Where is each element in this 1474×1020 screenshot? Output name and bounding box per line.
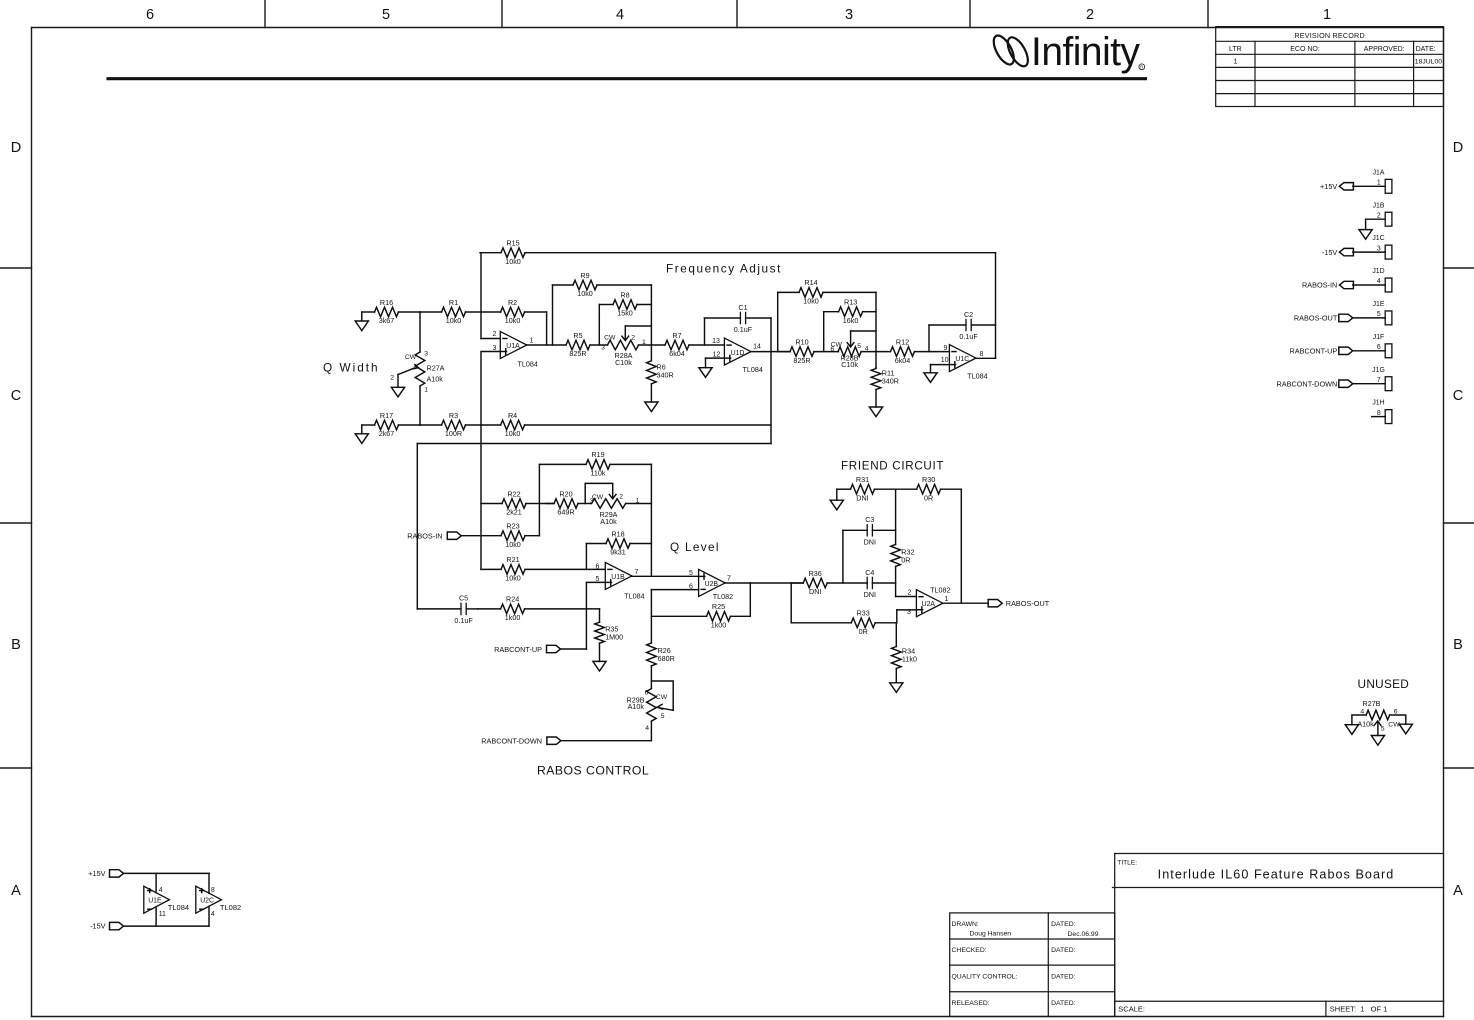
- resistor R8: [599, 290, 651, 317]
- svg-text:6: 6: [146, 7, 154, 23]
- svg-text:R36: R36: [809, 569, 822, 578]
- wire U1C output: [976, 357, 996, 359]
- svg-text:RABCONT-UP: RABCONT-UP: [494, 645, 542, 654]
- svg-text:3: 3: [601, 345, 605, 352]
- svg-text:0.1uF: 0.1uF: [734, 325, 753, 334]
- wire J1H stub: [1372, 416, 1386, 418]
- ground: [890, 683, 903, 693]
- svg-text:SCALE:: SCALE:: [1118, 1004, 1145, 1013]
- svg-text:Q Width: Q Width: [323, 361, 380, 375]
- wire R2 to U1A output: [546, 312, 548, 345]
- svg-text:J1C: J1C: [1372, 235, 1384, 242]
- svg-text:4: 4: [159, 887, 163, 894]
- svg-text:10k0: 10k0: [446, 316, 462, 325]
- section title Q Level: [670, 540, 720, 554]
- wire U2B pin6 net down: [651, 590, 698, 643]
- svg-text:C10k: C10k: [841, 360, 858, 369]
- resistor R31: [837, 475, 896, 502]
- svg-text:R33: R33: [857, 609, 870, 618]
- svg-text:ECO NO:: ECO NO:: [1290, 46, 1320, 53]
- resistor R36: [791, 569, 867, 596]
- svg-text:7: 7: [635, 569, 639, 576]
- wire U1B out to U2B pin5: [632, 575, 699, 577]
- svg-text:5: 5: [382, 7, 390, 23]
- resistor R23: [461, 522, 539, 549]
- ground: [391, 387, 404, 397]
- svg-text:7: 7: [727, 575, 731, 582]
- wire R33 left leg: [790, 583, 792, 623]
- svg-text:R25: R25: [712, 602, 725, 611]
- svg-text:R31: R31: [856, 475, 869, 484]
- resistor R16: [362, 298, 420, 325]
- node +15V power: [88, 869, 123, 878]
- node RABOS-IN at J1D: [1302, 281, 1353, 290]
- wire U2B output: [725, 582, 803, 584]
- svg-text:A: A: [1453, 883, 1463, 899]
- svg-text:10k0: 10k0: [505, 574, 521, 583]
- node RABCONT-DOWN at J1G: [1276, 379, 1352, 388]
- svg-text:4: 4: [645, 725, 649, 732]
- node RABCONT-DOWN: [481, 737, 561, 746]
- svg-text:Infinity: Infinity: [1031, 30, 1140, 74]
- wire J1F: [1353, 350, 1385, 352]
- svg-text:13: 13: [712, 338, 720, 345]
- svg-text:Dec.06.99: Dec.06.99: [1068, 931, 1099, 938]
- svg-text:C5: C5: [459, 594, 468, 603]
- wire U1A out: [527, 344, 566, 346]
- connector J1B pin 2: [1373, 202, 1392, 226]
- svg-text:U2B: U2B: [705, 581, 719, 588]
- resistor R33: [791, 609, 896, 636]
- svg-text:CW: CW: [1388, 722, 1400, 729]
- ground: [869, 407, 882, 417]
- svg-text:2: 2: [619, 494, 623, 501]
- wire J1B to ground: [1366, 219, 1386, 229]
- svg-text:0R: 0R: [901, 556, 910, 565]
- ground: [1359, 230, 1372, 240]
- wire U1C output feedback column: [995, 253, 997, 359]
- wire R13 left leg: [823, 312, 825, 352]
- svg-text:100R: 100R: [445, 429, 462, 438]
- svg-text:R18: R18: [611, 529, 624, 538]
- svg-text:11: 11: [159, 911, 166, 918]
- section title RABOS CONTROL: [537, 764, 649, 778]
- wire U2B... U1B pin5 net riser: [586, 582, 605, 649]
- node RABOS-IN: [407, 531, 461, 540]
- resistor R1: [420, 298, 481, 325]
- svg-text:TL084: TL084: [518, 360, 538, 369]
- svg-text:R5: R5: [573, 331, 582, 340]
- svg-text:RELEASED:: RELEASED:: [952, 1000, 990, 1007]
- op-amp U1C: [941, 345, 988, 381]
- svg-text:U2A: U2A: [922, 601, 936, 608]
- svg-text:C1: C1: [738, 303, 747, 312]
- svg-text:340R: 340R: [882, 376, 899, 385]
- svg-text:C4: C4: [865, 568, 874, 577]
- svg-text:14: 14: [753, 344, 761, 351]
- wire C1 left leg: [704, 318, 706, 345]
- svg-text:7: 7: [1377, 377, 1381, 384]
- svg-text:DATED:: DATED:: [1051, 974, 1076, 981]
- svg-text:R7: R7: [672, 331, 681, 340]
- svg-text:5: 5: [661, 713, 665, 720]
- svg-text:2: 2: [631, 335, 635, 342]
- resistor R6: [647, 345, 674, 402]
- svg-text:REVISION RECORD: REVISION RECORD: [1294, 31, 1365, 40]
- svg-text:D: D: [11, 140, 21, 156]
- svg-text:825R: 825R: [793, 356, 810, 365]
- svg-text:DNI: DNI: [809, 587, 821, 596]
- svg-text:3: 3: [1377, 245, 1381, 252]
- svg-text:J1H: J1H: [1372, 400, 1384, 407]
- svg-text:J1E: J1E: [1373, 301, 1385, 308]
- resistor R19: [539, 450, 651, 477]
- ground: [593, 661, 606, 671]
- svg-text:U1A: U1A: [506, 343, 520, 350]
- Infinity logo: [108, 30, 1146, 79]
- node +15V at J1A: [1320, 182, 1353, 191]
- resistor R4: [481, 411, 771, 438]
- resistor R13: [824, 298, 876, 325]
- svg-text:C10k: C10k: [615, 358, 632, 367]
- connector J1D pin 4: [1372, 268, 1392, 292]
- connector J1G pin 7: [1372, 367, 1392, 391]
- svg-text:CW: CW: [604, 335, 616, 342]
- wire rail left leg down to C5: [416, 444, 418, 609]
- svg-text:10k0: 10k0: [577, 289, 593, 298]
- resistor R18: [586, 529, 651, 556]
- svg-text:1: 1: [1377, 180, 1381, 187]
- op-amp U2B: [689, 569, 733, 601]
- resistor R7: [639, 331, 725, 358]
- svg-text:3: 3: [590, 498, 594, 505]
- svg-text:DNI: DNI: [856, 493, 868, 502]
- svg-text:R30: R30: [922, 475, 935, 484]
- resistor R35: [595, 609, 623, 662]
- svg-text:8: 8: [980, 351, 984, 358]
- resistor R3: [420, 411, 481, 438]
- potentiometer R27A: [390, 351, 444, 394]
- svg-text:CW: CW: [405, 354, 417, 361]
- wire R9 R8 right legs to main line: [650, 285, 652, 345]
- svg-text:R16: R16: [380, 298, 393, 307]
- section title Frequency Adjust: [666, 261, 782, 275]
- resistor R5: [566, 331, 608, 358]
- svg-text:0R: 0R: [859, 627, 868, 636]
- resistor R10: [779, 337, 838, 364]
- svg-text:J1F: J1F: [1373, 334, 1385, 341]
- resistor R12: [861, 337, 949, 364]
- svg-text:-15V: -15V: [1322, 248, 1338, 257]
- ground: [1399, 724, 1412, 734]
- svg-text:10k0: 10k0: [505, 257, 521, 266]
- svg-text:1k00: 1k00: [505, 613, 521, 622]
- ground: [1345, 725, 1358, 735]
- op-amp U1B: [596, 562, 645, 600]
- svg-text:J1G: J1G: [1372, 367, 1385, 374]
- svg-text:825R: 825R: [569, 349, 586, 358]
- svg-text:6: 6: [830, 346, 834, 353]
- op-amp U1D: [712, 338, 763, 374]
- section title UNUSED: [1358, 677, 1410, 691]
- svg-text:3: 3: [845, 7, 853, 23]
- potentiometer R28B: [830, 331, 876, 369]
- svg-text:DATE:: DATE:: [1416, 46, 1436, 53]
- svg-text:U1E: U1E: [148, 897, 162, 904]
- svg-text:C: C: [1453, 388, 1463, 404]
- svg-text:A10k: A10k: [628, 702, 645, 711]
- svg-text:RABOS-OUT: RABOS-OUT: [1006, 599, 1050, 608]
- wire U1D out: [751, 351, 790, 353]
- potentiometer R29B: [627, 681, 674, 732]
- wire R16 ground stub: [361, 312, 363, 321]
- op-amp U1E power pins: [144, 886, 189, 918]
- ground: [645, 402, 658, 412]
- svg-text:U1D: U1D: [731, 350, 745, 357]
- svg-text:3: 3: [493, 345, 497, 352]
- wire U1D output feedback column: [770, 318, 772, 444]
- svg-text:9k31: 9k31: [610, 548, 626, 557]
- svg-text:R13: R13: [844, 298, 857, 307]
- svg-text:FRIEND CIRCUIT: FRIEND CIRCUIT: [841, 460, 944, 473]
- svg-text:TL084: TL084: [168, 903, 189, 912]
- wire feedback rail: [417, 443, 771, 445]
- svg-text:6: 6: [645, 690, 649, 697]
- wire C3 to C4 left legs: [842, 530, 844, 583]
- connector J1H pin 8: [1372, 400, 1392, 424]
- svg-text:8: 8: [1377, 410, 1381, 417]
- wire U1A pin2 net: [481, 253, 500, 339]
- capacitor C3: [843, 515, 896, 546]
- section title FRIEND CIRCUIT: [841, 460, 944, 473]
- wire node Qwidth top to pot: [419, 312, 421, 352]
- svg-text:6k04: 6k04: [895, 356, 911, 365]
- connector J1A pin 1: [1373, 169, 1392, 193]
- svg-text:+15V: +15V: [1320, 182, 1337, 191]
- svg-text:9: 9: [943, 345, 947, 352]
- node RABCONT-UP at J1F: [1289, 347, 1352, 356]
- node -15V at J1C: [1322, 248, 1354, 257]
- svg-text:10: 10: [941, 357, 949, 364]
- resistor R22: [481, 489, 539, 516]
- svg-text:R9: R9: [580, 271, 589, 280]
- svg-text:J1D: J1D: [1372, 268, 1384, 275]
- svg-text:R3: R3: [449, 411, 458, 420]
- resistor R26: [647, 643, 675, 689]
- svg-text:3k67: 3k67: [379, 316, 395, 325]
- wire R25 right leg: [749, 583, 751, 616]
- svg-text:6: 6: [596, 564, 600, 571]
- svg-text:B: B: [1453, 637, 1463, 653]
- wire R19 right leg to U1B out: [650, 464, 652, 576]
- wire R29A pin1 to output column: [626, 503, 652, 505]
- wire J1C: [1353, 251, 1385, 253]
- svg-text:6k04: 6k04: [669, 349, 685, 358]
- svg-text:18JUL00: 18JUL00: [1415, 58, 1442, 65]
- resistor R34: [892, 623, 917, 683]
- svg-text:6: 6: [1377, 344, 1381, 351]
- svg-text:CW: CW: [656, 694, 668, 701]
- wire J1G: [1353, 383, 1385, 385]
- ground: [924, 373, 937, 383]
- svg-text:340R: 340R: [657, 371, 674, 380]
- svg-text:R22: R22: [507, 489, 520, 498]
- svg-text:5: 5: [689, 570, 693, 577]
- wire R22 to R20: [539, 503, 554, 505]
- wire -15V rail: [124, 906, 210, 926]
- svg-text:D: D: [1453, 140, 1463, 156]
- resistor R32: [891, 544, 915, 566]
- svg-text:J1A: J1A: [1373, 169, 1385, 176]
- op-amp U2C power pins: [196, 886, 241, 918]
- svg-text:R23: R23: [506, 522, 519, 531]
- wire R30 left leg down: [895, 489, 897, 544]
- svg-text:2k67: 2k67: [379, 429, 395, 438]
- revision record table: [1216, 27, 1444, 107]
- svg-text:QUALITY CONTROL:: QUALITY CONTROL:: [952, 974, 1018, 981]
- svg-text:2: 2: [1086, 7, 1094, 23]
- svg-text:RABOS CONTROL: RABOS CONTROL: [537, 764, 649, 778]
- resistor R24: [478, 595, 600, 622]
- svg-text:649R: 649R: [557, 508, 574, 517]
- svg-text:B: B: [11, 637, 21, 653]
- svg-text:RABOS-OUT: RABOS-OUT: [1294, 314, 1338, 323]
- svg-text:C3: C3: [865, 515, 874, 524]
- svg-text:TL084: TL084: [624, 592, 644, 601]
- svg-text:RABOS-IN: RABOS-IN: [1302, 281, 1337, 290]
- svg-text:5: 5: [1381, 726, 1385, 733]
- ground: [355, 321, 368, 331]
- svg-text:5: 5: [1377, 311, 1381, 318]
- svg-text:Doug Hansen: Doug Hansen: [970, 930, 1012, 937]
- svg-text:RABOS-IN: RABOS-IN: [407, 531, 442, 540]
- wire U1C pin10 to ground: [931, 365, 950, 373]
- svg-text:0.1uF: 0.1uF: [454, 616, 473, 625]
- svg-text:15k0: 15k0: [617, 309, 633, 318]
- svg-text:R24: R24: [506, 595, 519, 604]
- svg-text:DATED:: DATED:: [1051, 921, 1076, 928]
- svg-text:+15V: +15V: [88, 869, 105, 878]
- wire R17 ground stub: [361, 425, 363, 434]
- svg-text:TL084: TL084: [743, 365, 763, 374]
- svg-text:R17: R17: [380, 411, 393, 420]
- op-amp U1A: [493, 331, 538, 368]
- svg-text:DNI: DNI: [864, 590, 876, 599]
- wire R31 ground stub: [836, 489, 838, 500]
- svg-text:LTR: LTR: [1229, 46, 1242, 53]
- section title Q Width: [323, 361, 380, 375]
- svg-text:R19: R19: [591, 450, 604, 459]
- svg-text:680R: 680R: [658, 654, 675, 663]
- svg-text:2k21: 2k21: [506, 508, 522, 517]
- capacitor C2: [929, 310, 996, 341]
- svg-text:10k0: 10k0: [505, 316, 521, 325]
- svg-text:Frequency Adjust: Frequency Adjust: [666, 261, 782, 275]
- svg-text:TL082: TL082: [220, 903, 241, 912]
- node RABOS-OUT at J1E: [1294, 314, 1353, 323]
- wire R29B pin4 down: [650, 721, 652, 741]
- svg-text:R1: R1: [449, 298, 458, 307]
- connector J1F pin 6: [1373, 334, 1392, 358]
- wire R27B pin4 to ground: [1352, 715, 1366, 725]
- wire J1D: [1353, 284, 1385, 286]
- resistor R30: [896, 475, 962, 502]
- svg-text:1: 1: [424, 387, 428, 394]
- node RABCONT-UP: [494, 645, 560, 654]
- potentiometer R27B: [1357, 699, 1400, 735]
- resistor R15: [480, 239, 996, 266]
- svg-text:2: 2: [908, 589, 912, 596]
- resistor R11: [871, 368, 899, 408]
- ground: [830, 500, 843, 510]
- svg-text:TL084: TL084: [967, 372, 987, 381]
- svg-text:APPROVED:: APPROVED:: [1364, 46, 1405, 53]
- ground: [355, 434, 368, 444]
- node -15V power: [90, 922, 123, 931]
- svg-text:R27B: R27B: [1363, 699, 1381, 708]
- svg-text:C2: C2: [964, 310, 973, 319]
- connector J1C pin 3: [1372, 235, 1392, 259]
- svg-text:A10k: A10k: [1357, 720, 1374, 729]
- svg-text:2: 2: [1377, 212, 1381, 219]
- svg-text:11k0: 11k0: [902, 655, 917, 664]
- svg-text:-15V: -15V: [90, 922, 106, 931]
- svg-text:1M00: 1M00: [605, 633, 623, 642]
- svg-text:U1C: U1C: [955, 356, 969, 363]
- svg-text:TITLE:: TITLE:: [1117, 859, 1137, 866]
- svg-text:110k: 110k: [590, 469, 605, 478]
- svg-text:Interlude IL60 Feature Rabos B: Interlude IL60 Feature Rabos Board: [1158, 868, 1395, 882]
- svg-text:C: C: [11, 388, 21, 404]
- wire RABCONT-UP to riser: [561, 648, 587, 650]
- svg-text:4: 4: [616, 7, 624, 23]
- svg-text:10k0: 10k0: [505, 540, 521, 549]
- svg-text:A: A: [11, 883, 21, 899]
- svg-text:1: 1: [1233, 58, 1237, 65]
- svg-text:2: 2: [390, 375, 394, 382]
- title block: [950, 854, 1444, 1017]
- svg-text:U2C: U2C: [200, 897, 214, 904]
- svg-text:R14: R14: [804, 278, 817, 287]
- svg-text:8: 8: [211, 887, 215, 894]
- resistor R21: [481, 555, 605, 582]
- svg-text:RABCONT-DOWN: RABCONT-DOWN: [1276, 379, 1337, 388]
- svg-text:12: 12: [713, 351, 721, 358]
- svg-text:R10: R10: [795, 337, 808, 346]
- ground: [699, 368, 712, 378]
- capacitor C4: [864, 568, 896, 599]
- wire R19 left leg: [538, 464, 540, 535]
- wire U1A pin3 net down: [481, 352, 500, 570]
- wire R14 right leg down to R11: [875, 292, 877, 367]
- svg-text:CW: CW: [592, 494, 604, 501]
- svg-text:3: 3: [907, 609, 911, 616]
- svg-text:UNUSED: UNUSED: [1358, 677, 1410, 691]
- wire R18 left leg: [585, 544, 587, 570]
- wire J1A: [1353, 185, 1385, 187]
- svg-text:U1B: U1B: [611, 574, 625, 581]
- wire +15V rail: [124, 873, 210, 893]
- wire R8 left leg: [598, 305, 600, 346]
- resistor R9: [553, 271, 652, 298]
- svg-text:4: 4: [1377, 278, 1381, 285]
- svg-text:1: 1: [530, 337, 534, 344]
- wire U2A output: [943, 602, 988, 604]
- wire R9 left leg: [552, 285, 554, 345]
- svg-text:R8: R8: [620, 290, 629, 299]
- wire R30 right leg to U2A out: [960, 489, 962, 603]
- svg-text:DATED:: DATED:: [1051, 947, 1076, 954]
